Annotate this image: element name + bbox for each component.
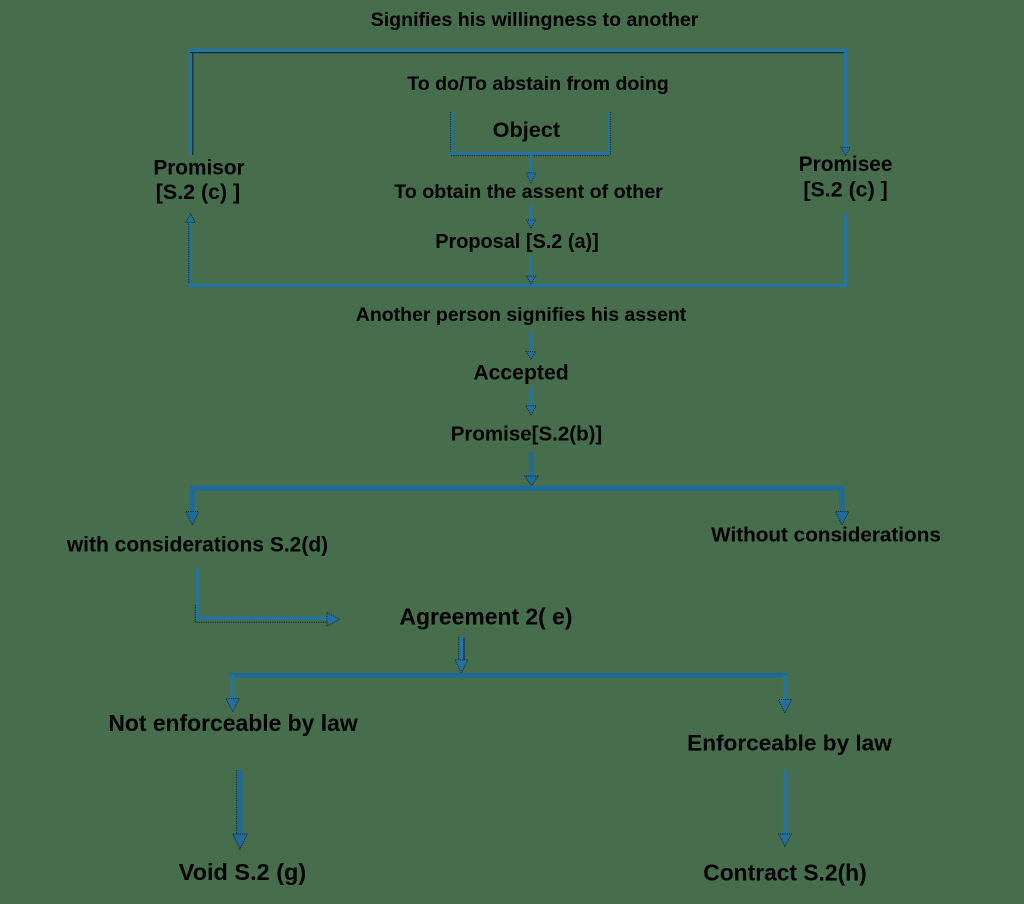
wire: enforceability rail right drop xyxy=(783,675,786,700)
svg-text:Accepted: Accepted xyxy=(473,362,568,385)
wire: bottom bracket left riser xyxy=(189,222,191,287)
wire: considerations rail (thick) xyxy=(190,486,844,491)
svg-text:Not enforceable by law: Not enforceable by law xyxy=(108,710,358,736)
svg-text:Void S.2 (g): Void S.2 (g) xyxy=(179,859,307,885)
wire: considerations rail right drop xyxy=(840,488,845,512)
arrow: elbow from with-considerations to Agreement xyxy=(195,568,339,626)
arrow: Another person -> Accepted xyxy=(526,332,536,360)
wire: enforceability rail left drop xyxy=(231,675,234,700)
arrow: Agreement -> enforceability rail xyxy=(455,637,468,673)
svg-text:Promise[S.2(b)]: Promise[S.2(b)] xyxy=(451,423,603,446)
wire: top bracket rail xyxy=(189,50,847,52)
svg-text:Another person signifies his a: Another person signifies his assent xyxy=(356,304,687,326)
wire: bottom bracket right riser xyxy=(844,214,847,285)
svg-text:Signifies his willingness to a: Signifies his willingness to another xyxy=(371,9,699,31)
arrow: 'To obtain' down to Proposal xyxy=(526,205,535,228)
svg-text:Object: Object xyxy=(493,117,561,142)
svg-text:[S.2 (c) ]: [S.2 (c) ] xyxy=(803,177,887,201)
wire: Object bracket left wall xyxy=(451,112,453,155)
svg-text:To do/To abstain from doing: To do/To abstain from doing xyxy=(407,73,669,95)
wire: Object bracket bottom xyxy=(450,153,610,155)
arrow: Promise -> considerations rail (thick) xyxy=(525,452,538,486)
svg-text:Without considerations: Without considerations xyxy=(711,524,941,547)
arrowhead: considerations right, down xyxy=(835,512,849,525)
svg-text:Enforceable by law: Enforceable by law xyxy=(687,730,892,755)
arrow: Not enforceable -> Void (thick, dotted left edge) xyxy=(233,770,248,849)
svg-text:To obtain the assent of other: To obtain the assent of other xyxy=(394,181,663,203)
arrow: Proposal down to bottom rail xyxy=(526,257,535,284)
wire: top bracket left drop xyxy=(190,49,192,155)
wire: top bracket right drop xyxy=(844,50,847,147)
wire: considerations rail left drop xyxy=(190,488,195,512)
arrow: Accepted -> Promise xyxy=(526,388,537,415)
wire: enforceability rail xyxy=(230,673,787,678)
svg-text:with considerations S.2(d): with considerations S.2(d) xyxy=(66,534,328,557)
wire: bottom bracket rail xyxy=(188,284,847,287)
svg-text:Proposal [S.2 (a)]: Proposal [S.2 (a)] xyxy=(435,231,599,253)
arrowhead: down at Promisee xyxy=(841,147,850,155)
arrowhead: enforceability left, down xyxy=(226,698,240,711)
arrow: Enforceable -> Contract xyxy=(778,770,791,846)
svg-text:[S.2 (c) ]: [S.2 (c) ] xyxy=(156,180,240,204)
arrowhead: up at [S.2 (c)] left xyxy=(186,214,195,223)
arrowhead: considerations left, down xyxy=(186,512,200,525)
arrow: Object stem down to 'To obtain' xyxy=(526,155,535,183)
svg-text:Contract S.2(h): Contract S.2(h) xyxy=(703,860,866,886)
wire: Object bracket right wall xyxy=(609,112,611,155)
svg-text:Promisor: Promisor xyxy=(153,157,244,180)
svg-text:Agreement 2( e): Agreement 2( e) xyxy=(400,604,573,630)
svg-text:Promisee: Promisee xyxy=(799,153,893,176)
arrowhead: enforceability right, down xyxy=(778,700,792,713)
